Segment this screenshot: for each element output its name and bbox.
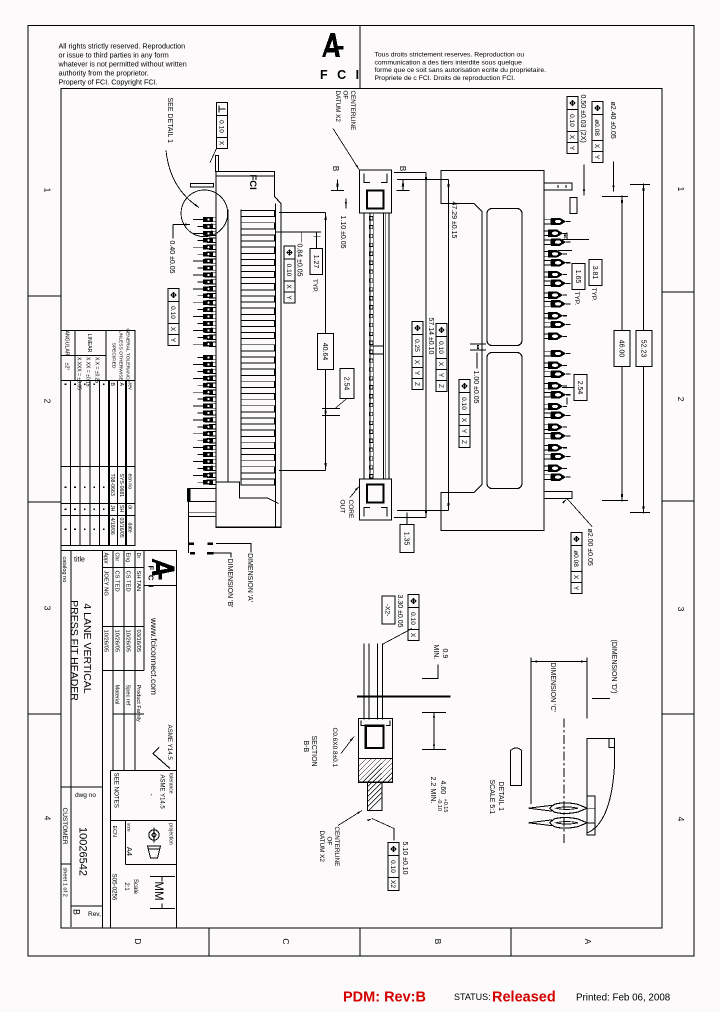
- catalog no cell: [70, 551, 72, 928]
- fcf 5.10: [388, 843, 399, 856]
- fcf 57.14: [412, 322, 423, 335]
- svg-text:52.23: 52.23: [640, 340, 647, 358]
- svg-text:40.64: 40.64: [321, 343, 328, 361]
- svg-text:0.10: 0.10: [169, 306, 176, 319]
- svg-text:F C I: F C I: [320, 68, 362, 82]
- svg-text:DIMENSION 'B': DIMENSION 'B': [226, 559, 233, 608]
- dimension 46.00 reference: [621, 196, 623, 502]
- svg-text:rev: rev: [127, 383, 133, 391]
- svg-text:Dr: Dr: [135, 553, 141, 559]
- header divider line between logo box and french text box: [359, 26, 361, 89]
- revision table outline: [61, 381, 135, 546]
- svg-text:X: X: [409, 633, 416, 638]
- svg-text:A: A: [118, 383, 124, 387]
- front view support strip: [189, 512, 216, 516]
- front view right end face: [216, 526, 281, 528]
- svg-text:CS TED: CS TED: [114, 571, 120, 592]
- fcf 1.00: [459, 380, 470, 393]
- rear view guide post right: [544, 492, 572, 499]
- svg-text:SYS-0681: SYS-0681: [118, 474, 124, 498]
- svg-text:TYP.: TYP.: [311, 279, 318, 293]
- FCI logo (header): [322, 33, 344, 57]
- svg-text:X: X: [460, 418, 467, 423]
- svg-text:0.25: 0.25: [413, 339, 420, 352]
- svg-text:LINEAR: LINEAR: [86, 334, 92, 353]
- svg-text:ø2.40 ±0.05: ø2.40 ±0.05: [609, 102, 616, 139]
- svg-text:dr: dr: [127, 505, 133, 510]
- top view right end guide hole: [367, 485, 384, 503]
- tolerance ASME Y14.5 cell: [111, 820, 177, 822]
- left end tab: [216, 156, 219, 172]
- svg-text:2.54: 2.54: [576, 381, 583, 395]
- dimension 40.64 line: [325, 213, 327, 471]
- svg-text:4.60: 4.60: [439, 781, 446, 795]
- svg-text:2.2: 2.2: [429, 777, 436, 787]
- svg-text:Z: Z: [460, 440, 467, 444]
- svg-text:CENTERLINE: CENTERLINE: [349, 91, 356, 131]
- svg-text:SH TAN: SH TAN: [135, 571, 141, 592]
- svg-text:JOEY NG: JOEY NG: [103, 571, 109, 597]
- tolerance box outline: [61, 331, 135, 381]
- svg-text:T08-0663: T08-0663: [109, 474, 115, 496]
- svg-text:Material: Material: [114, 685, 120, 705]
- detail 1 centerline: [563, 719, 565, 843]
- fcf for guide post dia: [592, 102, 603, 115]
- svg-text:X: X: [218, 141, 225, 146]
- FCI logo cell: [144, 551, 177, 586]
- fcf for 0.50 dim: [567, 97, 578, 110]
- section pin tails: [382, 644, 384, 720]
- top view inner lines: [385, 213, 387, 479]
- section mark ticks at seating plane: [208, 542, 214, 544]
- svg-text:X: X: [169, 327, 176, 332]
- svg-text:SH: SH: [118, 505, 124, 512]
- svg-text:sheet 1 of 2: sheet 1 of 2: [62, 868, 68, 897]
- revision table column lines: [61, 466, 135, 468]
- fcf for 2.00 post: [571, 533, 582, 546]
- svg-text:0.10: 0.10: [437, 341, 444, 354]
- rear view lane slot 2: [487, 353, 522, 489]
- svg-text:TYP.: TYP.: [573, 292, 580, 306]
- svg-text:Spec ref: Spec ref: [125, 685, 131, 706]
- svg-text:X: X: [413, 360, 420, 365]
- svg-text:ø2.00 ±0.05: ø2.00 ±0.05: [586, 529, 593, 566]
- svg-text:X.X = ±0.25: X.X = ±0.25: [94, 357, 100, 383]
- svg-text:SPECIFIED: SPECIFIED: [111, 343, 117, 369]
- svg-text:X: X: [285, 284, 292, 289]
- dimension 1.35 boxed: [400, 525, 414, 553]
- svg-text:B: B: [72, 909, 82, 915]
- top view right end brackets: [381, 508, 387, 517]
- svg-text:Printed: Feb 06, 2008: Printed: Feb 06, 2008: [576, 993, 671, 1004]
- svg-text:DATUM X2: DATUM X2: [334, 91, 341, 123]
- svg-text:Eng: Eng: [125, 553, 131, 563]
- dimension 2.54 rear: [574, 375, 587, 401]
- svg-text:0.10: 0.10: [460, 397, 467, 410]
- svg-text:MIN.: MIN.: [429, 789, 436, 804]
- fcf 0.84: [284, 246, 295, 259]
- svg-text:FCI: FCI: [247, 175, 258, 190]
- revision table row lines: [125, 381, 127, 546]
- svg-text:46.00: 46.00: [618, 340, 625, 358]
- svg-text:0.10: 0.10: [389, 860, 396, 873]
- title block outer boundary: [176, 551, 178, 929]
- svg-text:ASME Y14.5: ASME Y14.5: [166, 725, 173, 761]
- front view standoff foot: [188, 489, 216, 502]
- dimension 1.00 between slots: [470, 343, 486, 345]
- dimension 40.64 box: [318, 334, 334, 370]
- svg-text:±2°: ±2°: [64, 363, 70, 371]
- svg-text:ECN: ECN: [111, 826, 117, 837]
- svg-text:X: X: [593, 144, 600, 149]
- svg-text:4/18/06: 4/18/06: [109, 518, 115, 535]
- svg-text:10/26/05: 10/26/05: [125, 630, 131, 653]
- fcf 0.40: [168, 289, 179, 302]
- svg-text:Tous droits strictement reserv: Tous droits strictement reserves. Reprod…: [375, 52, 525, 59]
- svg-text:4: 4: [676, 817, 686, 822]
- svg-text:4: 4: [43, 816, 53, 821]
- projection cell with third angle symbol: [126, 864, 177, 866]
- rear view guide post left: [544, 183, 572, 190]
- svg-text:CORE: CORE: [347, 500, 354, 519]
- dimension 52.23 reference: [643, 184, 645, 514]
- svg-text:Z: Z: [437, 384, 444, 388]
- dimension 1.27 TYP boxed: [310, 249, 323, 275]
- revision table empty row dots: [103, 384, 105, 386]
- svg-text:1.27: 1.27: [312, 255, 319, 269]
- section hatched block: [358, 759, 392, 783]
- tolerance box divider lines: [105, 331, 107, 381]
- fcf 47.29: [436, 324, 447, 337]
- inner drawing frame: [61, 89, 662, 929]
- svg-text:4 LANE VERTICAL: 4 LANE VERTICAL: [81, 603, 93, 693]
- svg-text:MM: MM: [152, 881, 164, 900]
- svg-text:DIMENSION 'C': DIMENSION 'C': [549, 663, 556, 712]
- svg-text:B: B: [398, 166, 407, 171]
- svg-text:Y: Y: [460, 429, 467, 434]
- dimension 57.14 line: [425, 173, 427, 518]
- section body cavity: [358, 718, 392, 758]
- svg-text:2: 2: [676, 397, 686, 402]
- svg-text:0.10: 0.10: [409, 612, 416, 625]
- rear view body outline: [441, 171, 544, 531]
- svg-text:STATUS:: STATUS:: [454, 992, 491, 1002]
- svg-text:size: size: [126, 823, 132, 832]
- svg-text:0.40 ±0.05: 0.40 ±0.05: [168, 241, 175, 274]
- svg-text:2.54: 2.54: [343, 377, 350, 391]
- approvals table grid: [143, 551, 145, 671]
- svg-text:PRESS FIT HEADER: PRESS FIT HEADER: [68, 600, 80, 701]
- front view internal lines: [240, 210, 242, 482]
- section corner brackets: [386, 721, 390, 726]
- svg-text:www.fciconnect.com: www.fciconnect.com: [149, 617, 159, 695]
- detail 1 shaft: [511, 748, 522, 785]
- bottom margin zone ticks: [208, 928, 210, 956]
- top view left end guide hole: [367, 191, 384, 209]
- svg-text:date: date: [127, 523, 133, 533]
- svg-text:Property of FCI. Copyright FC: Property of FCI. Copyright FCI.: [59, 77, 158, 86]
- dwg no cell boundary: [61, 786, 103, 788]
- svg-text:Rev,: Rev,: [88, 911, 101, 918]
- svg-text:catalog no: catalog no: [61, 557, 67, 583]
- svg-text:X2: X2: [389, 880, 396, 888]
- fcf 3.30 with datum: [408, 595, 419, 608]
- svg-text:X: X: [437, 362, 444, 367]
- svg-text:10/26/05: 10/26/05: [114, 630, 120, 653]
- svg-text:0.10: 0.10: [218, 120, 225, 133]
- front view left end face double line: [216, 175, 275, 177]
- front view body outline: [216, 172, 281, 528]
- rear view lane slot 1: [487, 209, 522, 346]
- seating plane line: [188, 498, 190, 553]
- size cell A4: [125, 821, 127, 865]
- svg-text:3.81: 3.81: [591, 266, 598, 280]
- svg-text:10026542: 10026542: [77, 827, 89, 876]
- DIMENSION C dim line: [531, 661, 587, 663]
- svg-text:authority from the proprietor.: authority from the proprietor.: [59, 68, 149, 77]
- svg-text:S05-0256: S05-0256: [111, 874, 118, 901]
- svg-text:B: B: [109, 383, 115, 387]
- svg-text:03/16/05: 03/16/05: [135, 630, 141, 653]
- detail 1 indicator circle: [181, 190, 228, 237]
- svg-text:DATUM X2: DATUM X2: [318, 831, 325, 863]
- detail 1 body outline: [587, 739, 615, 833]
- section B-B pcb line: [357, 695, 450, 697]
- svg-text:OF: OF: [342, 91, 349, 100]
- svg-text:projection: projection: [168, 823, 174, 845]
- front view press-fit pins: [193, 217, 216, 222]
- detail 1 pin tails to body: [587, 807, 595, 809]
- svg-text:0.10: 0.10: [285, 264, 292, 277]
- svg-text:Y: Y: [437, 373, 444, 378]
- svg-text:D: D: [133, 938, 143, 944]
- dimension 1.65 TYP: [572, 264, 585, 290]
- svg-text:03/16/05: 03/16/05: [118, 518, 124, 538]
- svg-text:Scale: Scale: [132, 879, 138, 895]
- svg-text:57.14 ±0.10: 57.14 ±0.10: [427, 318, 434, 355]
- svg-text:F C I: F C I: [147, 566, 156, 589]
- top view lane divider: [370, 346, 384, 354]
- svg-text:X: X: [572, 575, 579, 580]
- svg-text:Appr: Appr: [103, 553, 109, 565]
- detail 1 eye-of-needle pin 2: [550, 818, 587, 829]
- svg-text:ecn no: ecn no: [127, 474, 133, 490]
- svg-text:1.00 ±0.05: 1.00 ±0.05: [472, 371, 479, 404]
- svg-text:1.10 ±0.05: 1.10 ±0.05: [339, 216, 346, 249]
- sheet cell: [61, 863, 71, 865]
- right margin zone ticks: [662, 291, 694, 293]
- svg-text:0.9: 0.9: [441, 649, 448, 659]
- svg-text:1.35: 1.35: [403, 532, 410, 546]
- svg-text:ø0.08: ø0.08: [593, 119, 600, 136]
- svg-text:B: B: [433, 939, 443, 945]
- svg-text:SEE DETAIL 1: SEE DETAIL 1: [166, 98, 173, 144]
- svg-text:1: 1: [43, 188, 53, 193]
- ASME Y14.5 cell with checkmark: [111, 770, 177, 772]
- svg-text:2:1: 2:1: [123, 882, 129, 891]
- svg-text:Y: Y: [568, 146, 575, 151]
- svg-text:ø0.08: ø0.08: [572, 550, 579, 567]
- detail 1 pin pointed tips: [529, 805, 553, 811]
- svg-text:C0.6X0.8±0.1: C0.6X0.8±0.1: [331, 728, 338, 768]
- svg-text:dwg no: dwg no: [75, 792, 96, 799]
- svg-text:Chr: Chr: [114, 553, 120, 562]
- svg-text:1.65: 1.65: [574, 270, 581, 284]
- svg-text:1: 1: [676, 187, 686, 192]
- svg-text:SEE NOTES: SEE NOTES: [113, 773, 120, 808]
- perpendicularity fcf: [217, 103, 228, 116]
- left end key bar: [191, 184, 214, 187]
- svg-text:0.50 ±0.03 (2X): 0.50 ±0.03 (2X): [579, 95, 586, 143]
- svg-text:Released: Released: [492, 990, 556, 1006]
- svg-text:3: 3: [676, 607, 686, 612]
- svg-text:CUSTOMER: CUSTOMER: [61, 808, 68, 845]
- svg-text:47.29 ±0.15: 47.29 ±0.15: [450, 202, 457, 239]
- title text zone divider: [102, 551, 104, 929]
- svg-text:CS TED: CS TED: [125, 571, 131, 592]
- svg-text:SCALE 5:1: SCALE 5:1: [488, 780, 495, 815]
- front view right end step: [216, 482, 279, 504]
- svg-text:tolerance: tolerance: [168, 773, 174, 794]
- svg-text:DETAIL 1: DETAIL 1: [497, 782, 504, 812]
- svg-text:Y: Y: [593, 155, 600, 160]
- rev cell: [71, 905, 103, 907]
- svg-text:ASME Y14.5: ASME Y14.5: [159, 775, 165, 810]
- dimension 2.54 front: [340, 369, 354, 399]
- svg-text:B-B: B-B: [302, 741, 309, 753]
- svg-text:A: A: [583, 939, 593, 945]
- svg-text:JH: JH: [109, 505, 115, 512]
- svg-text:0.84 ±0.05: 0.84 ±0.05: [296, 244, 303, 277]
- svg-text:A4: A4: [125, 847, 134, 856]
- rear view press-fit pins: [544, 218, 571, 225]
- svg-text:5.10 ±0.10: 5.10 ±0.10: [401, 842, 408, 875]
- svg-text:or issue to third parties in a: or issue to third parties in any form: [59, 50, 169, 59]
- svg-text:TYP.: TYP.: [590, 288, 597, 302]
- section contact square: [366, 726, 384, 748]
- svg-text:(DIMENSION 'D'): (DIMENSION 'D'): [610, 640, 617, 694]
- svg-text:forme que ce soit sans autoris: forme que ce soit sans autorisation ecri…: [375, 67, 547, 74]
- svg-text:DIMENSION 'A': DIMENSION 'A': [246, 553, 253, 602]
- extension lines for 52.23/46.00: [630, 184, 650, 186]
- top view right end block: [360, 479, 392, 520]
- svg-text:UNLESS OTHERWISE: UNLESS OTHERWISE: [118, 330, 124, 381]
- svg-text:Y: Y: [572, 586, 579, 591]
- svg-text:SECTION: SECTION: [310, 736, 317, 767]
- svg-text:-X2-: -X2-: [384, 604, 391, 616]
- svg-text:Y: Y: [169, 338, 176, 343]
- top view left end brackets: [381, 174, 387, 183]
- svg-text:10/26/05: 10/26/05: [103, 630, 109, 653]
- svg-text:2: 2: [43, 399, 53, 404]
- rear view flange inner lines: [449, 203, 474, 205]
- svg-text:3.30 ±0.05: 3.30 ±0.05: [396, 595, 403, 628]
- svg-text:MIN.: MIN.: [432, 645, 439, 660]
- svg-text:Y: Y: [285, 295, 292, 300]
- svg-text:B: B: [331, 166, 340, 171]
- extension line for 1.27/0.84 dims: [276, 231, 322, 233]
- front view inner wall line: [275, 204, 277, 528]
- svg-text:OF: OF: [326, 837, 333, 846]
- svg-text:PDM: Rev:B: PDM: Rev:B: [343, 990, 426, 1006]
- svg-text:Y: Y: [413, 371, 420, 376]
- leader lines for pin pitch dims: [562, 239, 589, 241]
- front view contact slots: [241, 211, 275, 217]
- svg-text:X: X: [568, 135, 575, 140]
- dimension 3.81 TYP: [589, 260, 602, 286]
- svg-text:All rights strictly reserved.: All rights strictly reserved. Reproducti…: [59, 42, 186, 51]
- svg-text:OUT: OUT: [339, 500, 346, 514]
- svg-text:Propriete de c FCI. Droits de: Propriete de c FCI. Droits de reproducti…: [375, 75, 516, 82]
- rear view guide post left collar: [570, 198, 577, 214]
- section hatched tail: [367, 782, 382, 810]
- left margin zone ticks: [28, 295, 61, 297]
- svg-text:title: title: [74, 557, 85, 564]
- svg-text:C: C: [281, 938, 291, 944]
- top view contact teeth: [369, 217, 373, 220]
- svg-text:0.10: 0.10: [568, 114, 575, 127]
- dimension 47.29 line: [448, 180, 450, 511]
- svg-text:Z: Z: [413, 382, 420, 386]
- svg-text:communication a des tiers inte: communication a des tiers interdite sous…: [375, 59, 523, 66]
- svg-text:3: 3: [43, 606, 53, 611]
- svg-text:GENERAL TOLERANCE: GENERAL TOLERANCE: [125, 328, 131, 383]
- ECN cell: [110, 771, 112, 929]
- svg-text:Product Family: Product Family: [135, 685, 141, 723]
- svg-text:ANGULAR: ANGULAR: [64, 330, 70, 355]
- top view left end block: [360, 170, 392, 213]
- svg-text:whatever is not permitted with: whatever is not permitted without writte…: [58, 59, 187, 68]
- top view long body: [364, 213, 389, 479]
- detail 1 eye-of-needle pin 1: [550, 803, 587, 814]
- svg-text:CENTERLINE: CENTERLINE: [333, 827, 340, 867]
- detail 1 pin bases: [587, 796, 595, 835]
